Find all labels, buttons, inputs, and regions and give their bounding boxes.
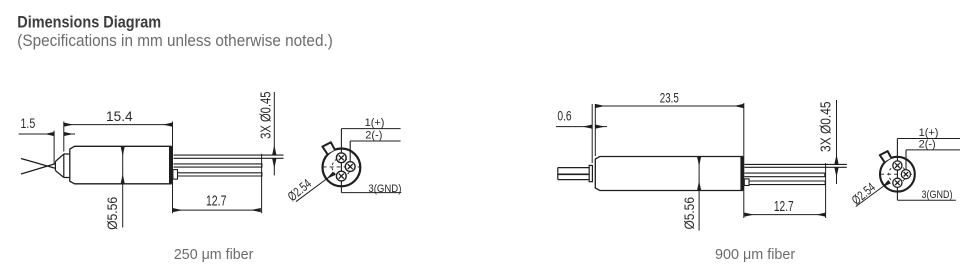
svg-text:15.4: 15.4 bbox=[106, 108, 133, 124]
svg-text:Dimensions Diagram: Dimensions Diagram bbox=[17, 13, 161, 32]
svg-text:3X Ø0.45: 3X Ø0.45 bbox=[257, 92, 274, 139]
svg-text:(Specifications in mm unless o: (Specifications in mm unless otherwise n… bbox=[17, 32, 333, 50]
svg-text:2(-): 2(-) bbox=[365, 130, 382, 142]
svg-text:23.5: 23.5 bbox=[660, 89, 679, 105]
svg-text:0.6: 0.6 bbox=[557, 107, 571, 123]
svg-text:3(GND): 3(GND) bbox=[368, 183, 401, 195]
svg-text:3X Ø0.45: 3X Ø0.45 bbox=[818, 101, 835, 152]
svg-text:250 μm fiber: 250 μm fiber bbox=[174, 246, 254, 263]
svg-text:1.5: 1.5 bbox=[21, 115, 36, 131]
svg-text:12.7: 12.7 bbox=[206, 192, 227, 209]
svg-text:2(-): 2(-) bbox=[919, 139, 936, 151]
svg-text:12.7: 12.7 bbox=[774, 198, 794, 215]
svg-text:Ø5.56: Ø5.56 bbox=[104, 197, 120, 230]
svg-text:3(GND): 3(GND) bbox=[922, 189, 953, 201]
svg-text:1(+): 1(+) bbox=[365, 117, 385, 129]
svg-text:900 μm fiber: 900 μm fiber bbox=[715, 246, 795, 263]
svg-text:1(+): 1(+) bbox=[919, 127, 939, 139]
svg-text:Ø2.54: Ø2.54 bbox=[285, 176, 315, 204]
svg-text:Ø5.56: Ø5.56 bbox=[681, 197, 697, 230]
